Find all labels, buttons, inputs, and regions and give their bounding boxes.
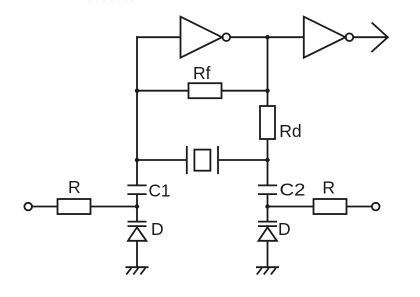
diode D left cathode bar 1 (128, 221, 147, 223)
node F junction (crystal right) (265, 158, 269, 162)
resistor Rd (260, 106, 275, 139)
node G junction (135, 204, 139, 208)
capacitor C2 top plate (258, 184, 277, 186)
wire left rail mid (136, 91, 138, 160)
output arrow (371, 23, 387, 52)
crystal X1 left plate (186, 146, 188, 174)
wire C1 to node G (136, 194, 138, 206)
wire Rd to node F (267, 139, 269, 160)
wire U2 output (353, 36, 387, 38)
wire to resistor Rf (137, 90, 189, 92)
svg-text:R: R (322, 178, 335, 198)
resistor R left (58, 199, 91, 214)
crystal X1 right plate (217, 146, 219, 174)
diode D right cathode bar 2 (258, 225, 277, 227)
inverter U2 bubble (346, 33, 354, 41)
wire diode D left to ground (136, 241, 138, 267)
capacitor C1 bottom plate (127, 193, 146, 195)
capacitor C1 top plate (127, 184, 146, 186)
capacitor C2 bottom plate (258, 193, 277, 195)
wire node G to diode D left (136, 207, 138, 222)
diode D left triangle (128, 227, 146, 241)
wire left rail to C1 (136, 160, 138, 185)
output terminal (372, 203, 380, 211)
wire Rf to node C (222, 90, 268, 92)
svg-text:R: R (68, 177, 81, 197)
inverter U2 (304, 17, 346, 58)
wire left rail top (node A vertical) (136, 36, 138, 90)
node E junction (crystal left) (135, 158, 139, 162)
ground right (256, 267, 279, 274)
svg-text:D: D (151, 219, 164, 239)
resistor R right (314, 199, 347, 214)
wire U1 output to node B (230, 36, 267, 38)
wire node C to Rd (267, 91, 269, 106)
svg-text:Rd: Rd (279, 121, 301, 141)
wire C2 to node H (267, 194, 269, 206)
wire node F to C2 (267, 160, 269, 185)
svg-text:xxxxxxx: xxxxxxx (87, 0, 136, 7)
wire node H to diode D right (267, 207, 269, 222)
resistor Rf (189, 83, 222, 98)
diode D left cathode bar 2 (128, 225, 147, 227)
wire input to inverter U1 (136, 36, 180, 38)
wire node H to resistor R right (268, 206, 314, 208)
wire right rail top (267, 37, 269, 90)
node B junction (265, 35, 269, 39)
input terminal (24, 203, 32, 211)
wire R left to node G (91, 206, 138, 208)
node D junction (Rf left) (135, 89, 139, 93)
ground left (126, 267, 149, 274)
wire terminal to resistor R left (32, 206, 58, 208)
wire node B to inverter U2 (268, 36, 304, 38)
wire diode D right to ground (267, 241, 269, 267)
node H junction (265, 204, 269, 208)
node C junction (Rf right) (265, 89, 269, 93)
svg-text:D: D (278, 219, 291, 239)
inverter U1 bubble (223, 33, 231, 41)
svg-text:C1: C1 (149, 180, 171, 200)
wire crystal to node F (218, 159, 268, 161)
svg-text:Rf: Rf (193, 63, 211, 83)
crystal X1 body (194, 150, 210, 171)
wire R right to terminal (347, 206, 372, 208)
wire node E to crystal (137, 159, 187, 161)
inverter U1 (181, 17, 223, 58)
svg-text:C2: C2 (280, 180, 306, 200)
diode D right cathode bar 1 (258, 221, 277, 223)
diode D right triangle (259, 227, 277, 241)
